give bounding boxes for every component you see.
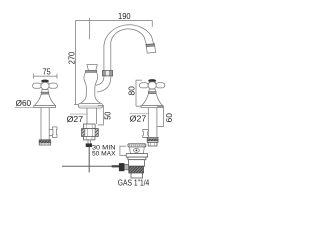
left handle hub [41,82,49,89]
riser nut [102,71,112,76]
spout riser tube [104,47,111,71]
svg-text:Ø27: Ø27 [130,115,147,124]
svg-text:50: 50 [104,111,113,120]
svg-text:270: 270 [67,51,76,64]
right shank nut tier2 [148,142,157,146]
drain flange tier2 [128,157,146,160]
svg-text:190: 190 [118,12,131,21]
drain body [129,160,145,167]
left handle top arm [42,82,48,84]
left shank bottom nut [39,140,51,145]
left handle bell plate [34,106,56,108]
spout body top cup [87,65,97,71]
spout body vase [80,72,101,103]
left handle bell rim band [41,92,49,94]
svg-text:60: 60 [165,112,174,122]
center lower nut [84,136,95,140]
left shank side outlet stub [49,130,52,136]
pop-up rod clamp block [86,143,92,147]
drain wide flange [126,154,147,158]
right handle bell [142,94,163,106]
right handle hub [148,82,156,89]
right handle bell plate [141,106,163,108]
svg-text:80: 80 [128,85,137,95]
right shank side outlet flange [143,130,149,138]
drain top flange [128,144,146,147]
right handle cap [148,79,156,82]
left handle bell [34,94,55,105]
left handle shank [41,108,49,140]
spout swan neck inner [111,29,147,47]
drain tailpiece threaded [129,166,144,173]
left handle dimension 75 [34,74,58,79]
right handle collar [149,89,156,92]
center shank below plinth [87,108,97,124]
svg-text:75: 75 [43,67,52,76]
left handle right lobe [49,83,58,88]
drain tailpiece end [131,173,143,178]
drain link [124,164,129,169]
pop-up vertical rod [88,147,90,172]
right shank nut [147,138,158,143]
svg-text:50 MAX: 50 MAX [92,150,116,157]
deck thickness bracket [120,146,126,155]
pop-up rod upper [88,140,90,144]
drain cup body [130,147,145,154]
right handle dimension 80 [136,80,142,106]
left shank side outlet flange [52,127,57,137]
left handle left lobe [33,83,42,88]
pop-up horizontal rod [62,165,112,167]
right handle shank [148,108,157,138]
spout swan neck outer [104,25,154,47]
aerator on spout tip [146,44,156,53]
spout body collar ring [85,70,96,72]
left handle collar [42,90,49,93]
svg-text:Ø27: Ø27 [67,115,84,124]
left handle cap [41,80,49,83]
right handle right lobe [156,83,165,88]
drain clevis block [119,163,125,171]
right handle bell rim band [148,92,156,94]
dimension 60 bracket [157,106,163,126]
svg-text:Ø60: Ø60 [16,99,32,108]
dimension 270 line [74,20,80,104]
dimension 190 line [76,18,153,39]
svg-text:GAS 1"1/4: GAS 1"1/4 [118,178,150,187]
spout elbow into body [96,76,111,92]
center locknut [84,124,96,129]
drain cup hole with ball [134,148,140,152]
center supply nut [82,129,99,137]
dimension 50 bracket [98,106,104,125]
right handle top arm [149,82,155,84]
right handle left lobe [139,83,148,88]
spout base plinth [78,103,102,108]
